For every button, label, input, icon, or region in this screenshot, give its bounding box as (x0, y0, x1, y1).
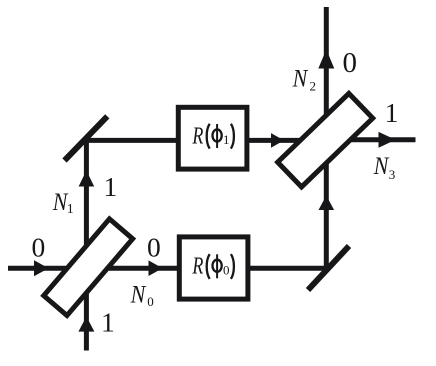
label R(phi0) (192, 252, 234, 279)
wire: BS1 to phase shifter R(phi0) (90, 266, 181, 271)
arrowhead: right output 1 (379, 132, 396, 148)
arrowhead: upward into BS2 (319, 196, 335, 211)
label: node N1 (52, 189, 74, 217)
arrowhead: input 0 (34, 260, 49, 276)
wire: mirror M2 up to BS2 (324, 140, 329, 268)
mirror M2 (bottom right) (308, 246, 349, 290)
label R(phi1) (192, 122, 234, 149)
svg-text:0: 0 (147, 232, 161, 263)
wire: R(phi1) to beam splitter BS2 (246, 138, 326, 143)
svg-text:0: 0 (343, 47, 358, 79)
svg-text:3: 3 (389, 167, 396, 182)
svg-text:N: N (292, 65, 309, 93)
phase shifter box U0 R(phi0) (179, 237, 248, 299)
wire: mirror M1 to phase shifter R(phi1) (84, 138, 181, 143)
arrowhead: toward BS2 (271, 133, 284, 148)
svg-text:R: R (192, 122, 204, 149)
svg-text:0: 0 (223, 263, 230, 278)
svg-text:0: 0 (147, 294, 154, 309)
svg-text:1: 1 (223, 132, 230, 147)
svg-text:1: 1 (67, 202, 74, 217)
arrowhead: bottom input 1 (78, 317, 94, 332)
wire: BS2 to top output 0 (324, 7, 329, 140)
wire: R(phi0) to mirror M2 (246, 266, 329, 271)
label: node N2 (292, 65, 316, 93)
beam splitter BS1 (44, 219, 133, 316)
arrowhead: N1 upward (79, 171, 95, 187)
svg-text:0: 0 (32, 232, 46, 263)
phase shifter box U1 R(phi1) (178, 107, 247, 169)
wire: BS1 up to mirror M1 (84, 138, 89, 268)
beam splitter BS2 (278, 93, 373, 187)
svg-text:N: N (130, 281, 147, 309)
mirror M1 (top left) (65, 116, 108, 160)
wire: input 0 into beam splitter BS1 (8, 266, 90, 271)
svg-text:2: 2 (310, 78, 317, 93)
arrowhead: top output 0 (318, 50, 334, 69)
arrowhead: N0 toward R(phi0) (149, 260, 163, 276)
label: node N3 (373, 153, 396, 182)
wire: BS2 to right output 1 (326, 137, 415, 142)
svg-text:1: 1 (385, 97, 399, 128)
wire: bottom input 1 into BS1 (84, 268, 89, 351)
svg-text:R: R (192, 252, 204, 279)
svg-text:N: N (373, 153, 390, 181)
svg-text:1: 1 (104, 171, 118, 202)
label: node N0 (130, 281, 154, 309)
svg-text:1: 1 (101, 307, 115, 338)
